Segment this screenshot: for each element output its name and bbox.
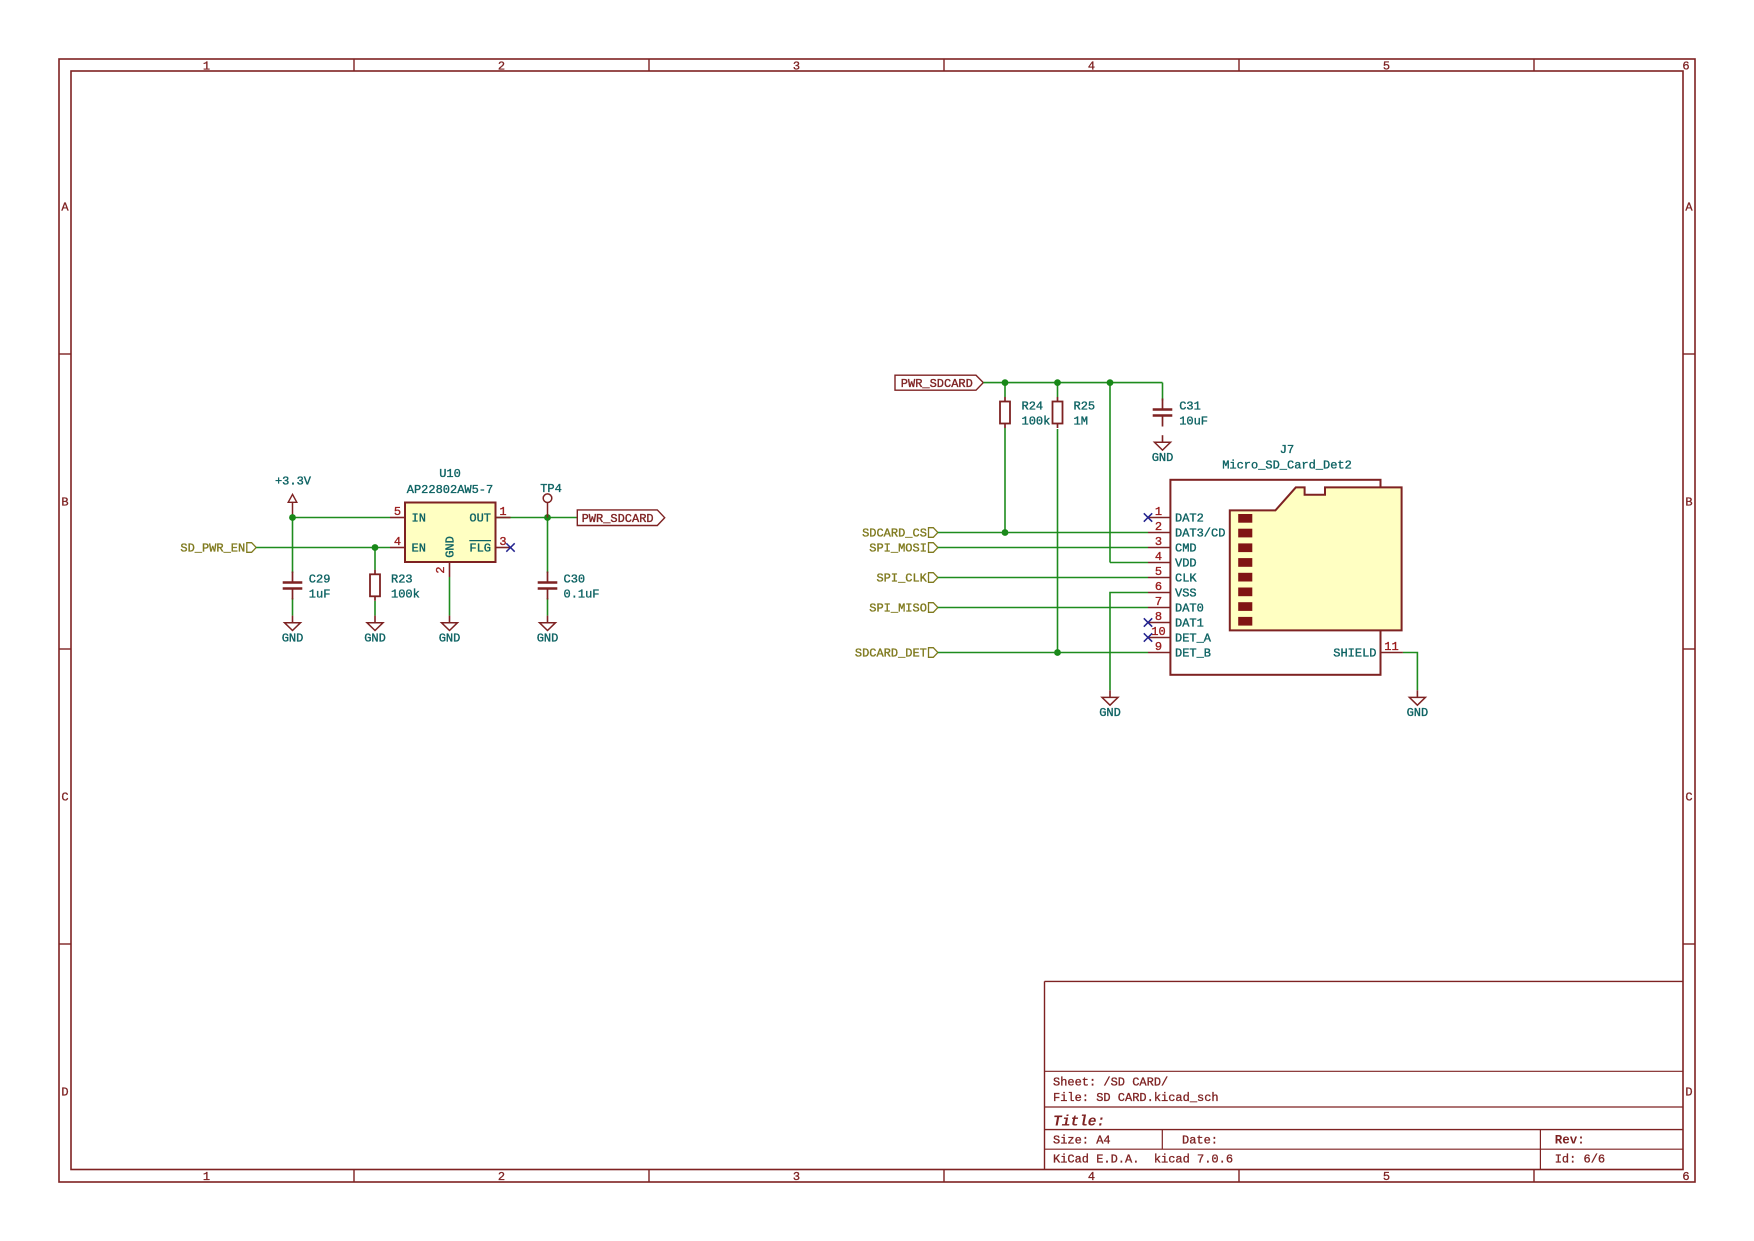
svg-text:8: 8	[1155, 610, 1162, 624]
title block frame	[1045, 981, 1684, 1169]
junction R25 / DET wire	[1054, 649, 1061, 656]
svg-text:GND: GND	[1152, 451, 1174, 465]
no-connect J7 pin 10	[1144, 633, 1152, 641]
svg-text:SDCARD_CS: SDCARD_CS	[862, 527, 927, 541]
svg-text:OUT: OUT	[469, 512, 491, 526]
hierarchical label SPI_MOSI	[869, 542, 938, 556]
wire to R24	[1004, 383, 1006, 397]
hierarchical label SD_PWR_EN	[180, 542, 256, 556]
ground under SHIELD	[1407, 690, 1429, 720]
no-connect FLG	[506, 543, 514, 551]
ground under C30	[537, 616, 559, 646]
wire C29 to GND	[292, 598, 294, 616]
wire junction down to C30	[547, 518, 549, 574]
svg-text:1: 1	[499, 505, 506, 519]
svg-text:J7: J7	[1280, 443, 1294, 457]
svg-text:3: 3	[793, 59, 800, 73]
capacitor C29	[283, 572, 303, 600]
svg-text:C: C	[61, 791, 68, 805]
wire C30 to GND	[547, 598, 549, 616]
svg-text:SPI_MOSI: SPI_MOSI	[869, 542, 927, 556]
svg-text:Micro_SD_Card_Det2: Micro_SD_Card_Det2	[1222, 458, 1352, 472]
hierarchical label SDCARD_DET	[855, 647, 938, 661]
svg-text:C30: C30	[564, 573, 586, 587]
svg-text:3: 3	[1155, 535, 1162, 549]
hierarchical label SPI_CLK	[876, 572, 937, 586]
svg-text:B: B	[61, 496, 68, 510]
J7 pin 10 DET_A	[1148, 625, 1212, 646]
wire +3.3V down to C29	[292, 518, 294, 574]
wire to VDD pin	[1110, 562, 1148, 564]
no-connect J7 pin 8	[1144, 618, 1152, 626]
svg-text:2: 2	[498, 1170, 505, 1184]
junction OUT / TP4 / C30	[544, 514, 551, 521]
global label PWR_SDCARD	[577, 510, 664, 526]
svg-text:C29: C29	[309, 573, 331, 587]
svg-text:DAT3/CD: DAT3/CD	[1175, 527, 1225, 541]
svg-text:DAT2: DAT2	[1175, 512, 1204, 526]
svg-text:Rev:: Rev:	[1555, 1133, 1585, 1147]
svg-text:R24: R24	[1022, 400, 1044, 414]
wire SPI_CLK to CLK	[938, 577, 1148, 579]
J7 pin 7 DAT0	[1148, 595, 1204, 616]
svg-text:6: 6	[1155, 580, 1162, 594]
svg-text:TP4: TP4	[540, 482, 562, 496]
svg-text:B: B	[1685, 496, 1692, 510]
svg-text:4: 4	[1088, 59, 1095, 73]
svg-text:Title:: Title:	[1053, 1114, 1105, 1130]
svg-text:D: D	[61, 1086, 68, 1100]
wire to VDD vertical	[1109, 383, 1111, 563]
svg-text:4: 4	[394, 535, 401, 549]
svg-text:3: 3	[793, 1170, 800, 1184]
svg-text:KiCad E.D.A. kicad 7.0.6: KiCad E.D.A. kicad 7.0.6	[1053, 1153, 1233, 1167]
J7 pin 8 DAT1	[1148, 610, 1204, 631]
junction +3.3V / IN	[289, 514, 296, 521]
svg-text:A: A	[61, 201, 69, 215]
wire U10 OUT to PWR_SDCARD	[496, 517, 578, 519]
svg-text:CLK: CLK	[1175, 572, 1197, 586]
wire VSS to GND	[1110, 593, 1148, 691]
svg-text:C: C	[1685, 791, 1692, 805]
J7 pin 6 VSS	[1148, 580, 1197, 601]
svg-text:SHIELD: SHIELD	[1333, 647, 1376, 661]
junction R24 / CS wire	[1002, 529, 1009, 536]
connector J7 body	[1170, 480, 1380, 675]
svg-text:DET_A: DET_A	[1175, 632, 1212, 646]
svg-text:1: 1	[203, 1170, 210, 1184]
junction bus R24	[1002, 379, 1009, 386]
svg-text:U10: U10	[439, 467, 461, 481]
svg-text:Sheet: /SD CARD/: Sheet: /SD CARD/	[1053, 1076, 1168, 1090]
svg-text:2: 2	[498, 59, 505, 73]
svg-text:GND: GND	[1407, 706, 1429, 720]
ground under R23	[364, 616, 386, 646]
svg-text:100k: 100k	[391, 588, 420, 602]
svg-text:VDD: VDD	[1175, 557, 1197, 571]
wire R24 to SDCARD_CS	[1004, 428, 1006, 533]
svg-text:Id: 6/6: Id: 6/6	[1555, 1153, 1605, 1167]
svg-text:File: SD CARD.kicad_sch: File: SD CARD.kicad_sch	[1053, 1091, 1219, 1105]
wire +3.3V to U10 IN	[293, 517, 391, 519]
resistor R23	[370, 570, 380, 601]
junction bus VDD	[1107, 379, 1114, 386]
svg-text:4: 4	[1155, 550, 1162, 564]
wire to R25	[1057, 383, 1059, 397]
wire SPI_MISO to DAT0	[938, 607, 1148, 609]
test point TP4	[540, 482, 562, 518]
svg-text:6: 6	[1682, 59, 1689, 73]
svg-text:R25: R25	[1074, 400, 1096, 414]
svg-text:5: 5	[1155, 565, 1162, 579]
svg-text:EN: EN	[412, 542, 426, 556]
capacitor C31	[1153, 399, 1173, 427]
U10 pin 2 GND	[434, 536, 458, 577]
U10 pin 3 FLG	[469, 535, 510, 555]
svg-text:SDCARD_DET: SDCARD_DET	[855, 647, 927, 661]
svg-text:11: 11	[1384, 640, 1398, 654]
svg-text:IN: IN	[412, 512, 426, 526]
svg-text:A: A	[1685, 201, 1693, 215]
svg-text:VSS: VSS	[1175, 587, 1197, 601]
svg-text:2: 2	[434, 566, 448, 573]
svg-text:3: 3	[499, 535, 506, 549]
svg-text:GND: GND	[537, 632, 559, 646]
svg-text:7: 7	[1155, 595, 1162, 609]
svg-text:2: 2	[1155, 520, 1162, 534]
svg-text:5: 5	[1383, 1170, 1390, 1184]
J7 pin 4 VDD	[1148, 550, 1197, 571]
wire U10 pin2 to GND	[449, 577, 451, 616]
wire to C31	[1162, 383, 1164, 401]
svg-text:1uF: 1uF	[309, 588, 331, 602]
wire SPI_MOSI to CMD	[938, 547, 1148, 549]
svg-text:DET_B: DET_B	[1175, 647, 1211, 661]
svg-text:SPI_CLK: SPI_CLK	[876, 572, 927, 586]
hierarchical label SDCARD_CS	[862, 527, 938, 541]
U10 pin 1 OUT	[469, 505, 510, 525]
svg-text:5: 5	[394, 505, 401, 519]
svg-text:9: 9	[1155, 640, 1162, 654]
svg-text:4: 4	[1088, 1170, 1095, 1184]
wire EN junction down to R23	[374, 548, 376, 570]
capacitor C30	[538, 572, 558, 600]
ground under C31	[1152, 435, 1174, 465]
resistor R25	[1053, 397, 1063, 428]
power symbol +3.3V	[275, 475, 312, 518]
wire SDCARD_DET to DET_B	[938, 652, 1148, 654]
svg-text:FLG: FLG	[469, 542, 491, 556]
J7 micro SD card graphic	[1230, 487, 1402, 630]
resistor R24	[1000, 397, 1010, 428]
svg-text:1: 1	[203, 59, 210, 73]
J7 pin 11 SHIELD	[1333, 640, 1403, 661]
svg-text:PWR_SDCARD: PWR_SDCARD	[582, 512, 654, 526]
svg-text:GND: GND	[364, 632, 386, 646]
svg-text:DAT0: DAT0	[1175, 602, 1204, 616]
svg-text:D: D	[1685, 1086, 1692, 1100]
svg-text:C31: C31	[1179, 400, 1201, 414]
no-connect J7 pin 1	[1144, 513, 1152, 521]
U10 pin 4 EN	[390, 535, 426, 555]
svg-text:1M: 1M	[1074, 415, 1088, 429]
J7 card contact pads	[1238, 514, 1252, 626]
svg-text:10: 10	[1151, 625, 1165, 639]
op-amp U10 body	[405, 503, 496, 563]
J7 pin 9 DET_B	[1148, 640, 1211, 661]
svg-text:0.1uF: 0.1uF	[564, 588, 600, 602]
J7 pin 3 CMD	[1148, 535, 1197, 556]
hierarchical label SPI_MISO	[869, 602, 938, 616]
U10 pin 5 IN	[390, 505, 426, 525]
wire R23 to GND	[374, 601, 376, 616]
svg-text:SPI_MISO: SPI_MISO	[869, 602, 927, 616]
J7 pin 2 DAT3/CD	[1148, 520, 1225, 541]
svg-text:1: 1	[1155, 505, 1162, 519]
svg-text:SD_PWR_EN: SD_PWR_EN	[180, 542, 245, 556]
svg-text:Date:: Date:	[1182, 1133, 1218, 1147]
svg-text:R23: R23	[391, 573, 413, 587]
junction EN / R23	[372, 544, 379, 551]
wire SDCARD_CS to DAT3/CD	[938, 532, 1148, 534]
global label PWR_SDCARD right	[895, 375, 983, 391]
wire R25 to SDCARD_DET	[1057, 429, 1059, 653]
ground under VSS	[1099, 690, 1121, 720]
svg-text:6: 6	[1682, 1170, 1689, 1184]
wire SD_PWR_EN to U10 EN	[256, 547, 390, 549]
svg-text:PWR_SDCARD: PWR_SDCARD	[901, 377, 973, 391]
ground under C29	[282, 616, 304, 646]
wire PWR_SDCARD bus	[983, 382, 1162, 384]
svg-text:CMD: CMD	[1175, 542, 1197, 556]
svg-text:GND: GND	[439, 632, 461, 646]
svg-text:5: 5	[1383, 59, 1390, 73]
wire SHIELD to GND	[1403, 653, 1418, 691]
svg-text:GND: GND	[1099, 706, 1121, 720]
svg-text:DAT1: DAT1	[1175, 617, 1204, 631]
J7 pin 5 CLK	[1148, 565, 1197, 586]
junction bus R25	[1054, 379, 1061, 386]
svg-text:+3.3V: +3.3V	[275, 475, 312, 489]
J7 pin 1 DAT2	[1148, 505, 1204, 526]
svg-text:Size: A4: Size: A4	[1053, 1133, 1111, 1147]
svg-text:100k: 100k	[1022, 415, 1051, 429]
ground under U10 pin2	[439, 616, 461, 646]
svg-text:GND: GND	[444, 536, 458, 558]
svg-text:AP22802AW5-7: AP22802AW5-7	[407, 483, 493, 497]
svg-text:10uF: 10uF	[1179, 415, 1208, 429]
svg-text:GND: GND	[282, 632, 304, 646]
